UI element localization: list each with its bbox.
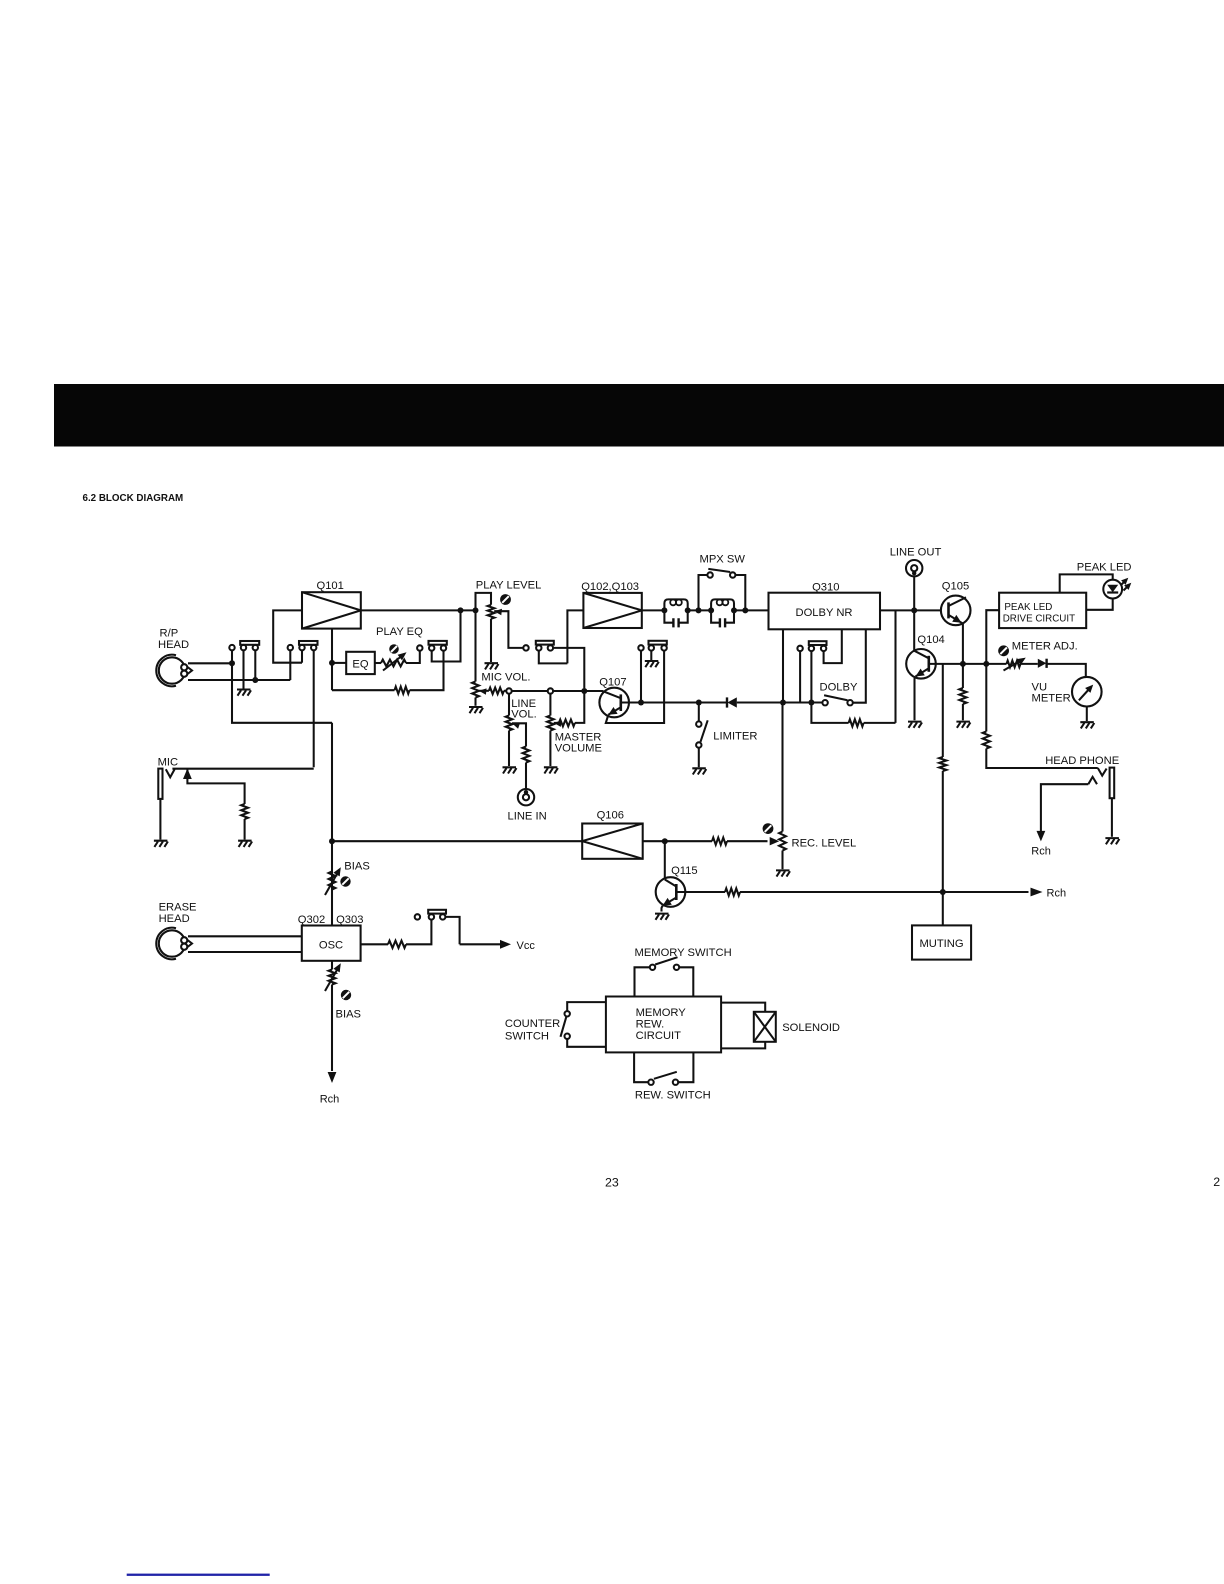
PLAY EQ pot arrow [383, 655, 403, 671]
potentiometer PLAY LEVEL [488, 605, 495, 619]
ground [956, 722, 970, 728]
op-amp Q101 label [317, 580, 344, 592]
node: head lower junction [252, 677, 258, 683]
svg-text:METER: METER [1032, 693, 1071, 705]
svg-text:METER ADJ.: METER ADJ. [1012, 641, 1078, 653]
arrow to Rch [1037, 831, 1046, 842]
svg-text:Q115: Q115 [671, 865, 698, 877]
MUTING box [912, 925, 971, 959]
wire: Q101 output line [361, 609, 476, 611]
node: head upper junction [229, 660, 235, 666]
svg-text:6.2 BLOCK DIAGRAM: 6.2 BLOCK DIAGRAM [83, 493, 184, 504]
ERASE HEAD label [159, 902, 197, 925]
wire: mic line [172, 768, 313, 770]
switch S7 contact b [429, 914, 434, 919]
wire: R/P head lower lead [188, 679, 290, 681]
svg-text:HEAD PHONE: HEAD PHONE [1045, 755, 1119, 767]
wire: bias to Rch arrow [331, 985, 333, 1072]
svg-text:Rch: Rch [1031, 846, 1051, 858]
Rch label (record out) [1047, 888, 1067, 900]
svg-text:MUTING: MUTING [919, 938, 963, 950]
transistor Q104 [906, 649, 936, 679]
resistor rch line [725, 888, 740, 895]
LINE IN jack [518, 789, 534, 805]
node: mixing junction [581, 688, 587, 694]
svg-text:DOLBY: DOLBY [820, 682, 858, 694]
wire: record signal line [641, 701, 727, 703]
wire: to Vcc [460, 943, 500, 945]
transistor Q105 label [942, 581, 969, 593]
DOLBY NR box [769, 593, 881, 630]
ground under MIC VOL [469, 707, 483, 713]
switch S5 contact c [661, 645, 666, 650]
ground under MASTER VOLUME [544, 767, 558, 773]
LINE IN label [508, 811, 547, 823]
svg-text:SWITCH: SWITCH [505, 1031, 549, 1043]
ground under REC LEVEL [776, 870, 790, 876]
switch S4 contact c [548, 645, 553, 650]
variable resistor METER ADJ [1007, 661, 1021, 668]
potentiometer REC LEVEL [781, 703, 783, 832]
MEMORY REW. CIRCUIT box [606, 997, 721, 1053]
ground under PLAY LEVEL [485, 663, 499, 669]
MIC VOL label [481, 672, 530, 684]
svg-text:HEAD: HEAD [159, 913, 190, 925]
wire: led loop top [1060, 574, 1113, 592]
R/P head label [158, 628, 189, 652]
node: Q101 output junction 1 [458, 607, 464, 613]
svg-text:MIC VOL.: MIC VOL. [481, 672, 530, 684]
svg-text:MEMORY SWITCH: MEMORY SWITCH [635, 947, 732, 959]
wire: mic jack sleeve [159, 799, 161, 840]
potentiometer MIC VOL [472, 682, 479, 698]
screwdriver adjust PLAY EQ [389, 644, 399, 654]
svg-text:OSC: OSC [319, 940, 343, 952]
svg-text:2: 2 [1213, 1175, 1220, 1189]
svg-text:REW. SWITCH: REW. SWITCH [635, 1090, 711, 1102]
blue footer line [127, 1574, 270, 1576]
node: EQ branch junction [329, 660, 335, 666]
screwdriver adjust PLAY LEVEL [500, 594, 511, 605]
svg-text:LIMITER: LIMITER [713, 731, 757, 743]
LED light arrows [1121, 580, 1127, 586]
svg-text:VOL.: VOL. [511, 709, 537, 721]
svg-text:MIC: MIC [158, 757, 179, 769]
headphone jack tip contact [1098, 768, 1107, 776]
wire: R/P head upper lead [188, 662, 232, 664]
svg-text:Q101: Q101 [317, 580, 344, 592]
PLAY LEVEL wiper [494, 609, 502, 615]
wire: arch to PLAY LEVEL pot [476, 593, 492, 611]
svg-text:EQ: EQ [352, 658, 368, 670]
switch S7 contact c [440, 914, 445, 919]
erase head [156, 928, 192, 960]
black header bar [54, 384, 1224, 447]
node circle line-vol top [506, 688, 511, 693]
wire: mixing row [512, 690, 548, 692]
ground under mic resistor [238, 841, 252, 847]
REC. LEVEL label [792, 838, 857, 850]
svg-text:COUNTER: COUNTER [505, 1018, 560, 1030]
switch S1 contact c [253, 645, 258, 650]
ground under LINE VOL [503, 767, 517, 773]
wire: long vertical to OSC [331, 723, 333, 926]
switch S6 (dolby in/out sel) contact a [797, 646, 802, 651]
VU METER label [1032, 682, 1071, 705]
svg-text:MEMORY: MEMORY [636, 1007, 687, 1019]
op-amp Q106 label [597, 810, 624, 822]
node [780, 700, 786, 706]
Rch label (headphone) [1031, 846, 1051, 858]
variable resistor BIAS top [329, 872, 336, 890]
svg-text:BIAS: BIAS [344, 861, 370, 873]
svg-text:SOLENOID: SOLENOID [782, 1022, 840, 1034]
switch S2 contact a [288, 645, 293, 650]
switch S4 bar [536, 641, 554, 645]
wire: Q101 bottom port down [331, 629, 333, 691]
R/P head [156, 655, 192, 687]
svg-text:PLAY LEVEL: PLAY LEVEL [476, 580, 542, 592]
diode D1 [726, 697, 728, 707]
switch S3 contact c [441, 645, 446, 650]
LINE OUT jack [906, 560, 922, 576]
op-amp Q102,Q103 label [581, 581, 639, 593]
MPX switch [696, 607, 702, 613]
MASTER VOLUME label [555, 732, 602, 755]
transistor Q115 [664, 841, 666, 879]
PEAK LED DRIVE CIRCUIT box [999, 593, 1086, 628]
rew switch [634, 1052, 648, 1082]
switch S1 contact a [229, 645, 234, 650]
DOLBY label [820, 682, 858, 694]
MIC VOL wiper resistor [479, 688, 487, 694]
arrow Rch output [1031, 888, 1043, 897]
wire: dolby out down branch [894, 610, 896, 723]
ground under S5 [645, 661, 659, 667]
switch S2 contact b [299, 645, 304, 650]
arrow mic input [183, 769, 192, 780]
svg-text:LINE OUT: LINE OUT [890, 547, 942, 559]
switch S7 bar [428, 910, 446, 914]
svg-text:Rch: Rch [320, 1094, 340, 1106]
headphone ring contact [1088, 777, 1097, 784]
node: muting junction [940, 889, 946, 895]
svg-text:Vcc: Vcc [517, 940, 536, 952]
PEAK LED label [1077, 562, 1132, 574]
svg-text:Q106: Q106 [597, 810, 624, 822]
MIC label [158, 757, 179, 769]
svg-text:DOLBY NR: DOLBY NR [796, 607, 853, 619]
resistor rec feed [712, 838, 727, 845]
svg-text:DRIVE CIRCUIT: DRIVE CIRCUIT [1003, 614, 1075, 625]
switch S2 contact c [311, 645, 316, 650]
node: Q107 collector junction [638, 700, 644, 706]
ground under headphone jack [1105, 838, 1119, 844]
LC trap 2 [711, 599, 734, 610]
op-amp Q102,Q103 [583, 593, 641, 628]
svg-text:MPX SW: MPX SW [700, 554, 746, 566]
switch S1 bar [240, 641, 259, 645]
LED peak indicator [1103, 580, 1122, 599]
svg-text:VOLUME: VOLUME [555, 743, 602, 755]
PLAY LEVEL label [476, 580, 542, 592]
Q115 emitter [663, 898, 677, 906]
svg-text:CIRCUIT: CIRCUIT [636, 1030, 682, 1042]
HEAD PHONE label [1045, 755, 1119, 767]
svg-text:Q102,Q103: Q102,Q103 [581, 581, 639, 593]
wire: Q104 base line [929, 663, 1007, 665]
memory switch [635, 967, 650, 996]
wire: EQ input [332, 662, 346, 664]
ground under S1 [237, 690, 251, 696]
node: Q105 emitter junction [960, 661, 966, 667]
switch S3 bar [429, 641, 447, 645]
wire: feedback resistor line [332, 689, 395, 691]
REW. SWITCH label [635, 1090, 711, 1102]
resistor mic load [241, 804, 248, 819]
node: line out junction [911, 607, 917, 613]
MASTER VOLUME wiper resistor [554, 721, 562, 727]
switch S3 (play eq select) contact a [417, 645, 422, 650]
VU meter [1072, 677, 1102, 707]
op-amp Q101 [302, 592, 361, 628]
wire: lower lead up to S2 [289, 650, 291, 680]
switch S5 contact b [649, 645, 654, 650]
svg-text:ERASE: ERASE [159, 902, 197, 914]
variable resistor PLAY EQ pot [375, 662, 381, 664]
switch S4 (rec/play) contact a [523, 645, 528, 650]
switch S1 contact b [241, 645, 246, 650]
switch S2 bar [299, 641, 318, 645]
svg-text:23: 23 [605, 1176, 619, 1190]
node circle master-vol top [548, 688, 553, 693]
headphone jack body [1110, 768, 1115, 799]
wire [688, 609, 711, 611]
wire: down to MIC VOL pot [474, 610, 476, 681]
svg-text:Q303: Q303 [336, 914, 363, 926]
variable resistor BIAS bottom [331, 961, 333, 970]
wire: mic divider [187, 769, 244, 805]
node: erase/bias junction [329, 838, 335, 844]
switch S6 contact c [821, 646, 826, 651]
screwdriver adjust METER ADJ [998, 645, 1009, 656]
COUNTER SWITCH label [505, 1018, 560, 1043]
svg-text:PEAK LED: PEAK LED [1077, 562, 1132, 574]
Q310 label [812, 582, 839, 594]
wire: Q104 top lead [913, 610, 915, 650]
svg-text:Q302: Q302 [298, 914, 325, 926]
wire: led loop bottom [1086, 599, 1113, 610]
svg-text:R/P: R/P [160, 628, 179, 640]
SOLENOID label [782, 1022, 840, 1034]
MEMORY SWITCH label [635, 947, 732, 959]
switch S6 contact b [809, 646, 814, 651]
MIC jack [158, 769, 162, 799]
Q107 emitter [608, 707, 621, 715]
diode D2 [1038, 659, 1047, 668]
counter switch [565, 1011, 570, 1016]
wire: dolby nr left bottom port [782, 629, 784, 702]
node: Q115 branch [662, 838, 668, 844]
ground under VU meter [1080, 722, 1094, 728]
op-amp Q106 [582, 824, 643, 859]
resistor dolby bypass [811, 703, 848, 723]
SOLENOID box [754, 1012, 776, 1042]
LINE VOL wiper [512, 723, 520, 729]
LINE VOL label [511, 698, 537, 721]
transistor Q115 label [671, 865, 698, 877]
OSC box [302, 926, 361, 961]
Rch label (bias) [320, 1094, 340, 1106]
wire: muting feed with resistor [942, 664, 944, 757]
potentiometer LINE VOL [508, 694, 510, 716]
svg-text:Q105: Q105 [942, 581, 969, 593]
potentiometer MASTER VOLUME [549, 694, 551, 716]
node: meter branch junction [983, 661, 989, 667]
REC LEVEL wiper arrow [770, 837, 780, 845]
MPX SW label [700, 554, 746, 566]
wire: to peak led drive [986, 610, 999, 664]
LC trap 1 [664, 599, 687, 610]
wire: Q106 output [643, 840, 712, 842]
wire: to Q102 input [567, 610, 583, 663]
wire: Q115 base / Rch line [676, 891, 725, 893]
svg-text:REC. LEVEL: REC. LEVEL [792, 838, 857, 850]
ground under Q104 [908, 722, 922, 728]
svg-text:Q104: Q104 [917, 634, 944, 646]
svg-text:HEAD: HEAD [158, 639, 189, 651]
wire: dolby output [880, 609, 941, 611]
PLAY EQ label [376, 626, 423, 638]
svg-text:Rch: Rch [1047, 888, 1067, 900]
svg-text:BIAS: BIAS [336, 1009, 362, 1021]
resistor Q105 emitter [962, 664, 964, 688]
screwdriver adjust BIAS top [340, 876, 350, 886]
ground under limiter [692, 768, 706, 774]
switch S7 (vcc) contact a [415, 914, 420, 919]
node: Q101 output junction 2 [473, 607, 479, 613]
wire: to Q106 input [332, 840, 582, 842]
Q302 Q303 labels [298, 914, 364, 926]
svg-text:PLAY EQ: PLAY EQ [376, 626, 423, 638]
solenoid wires [721, 1003, 765, 1012]
switch S4 contact b [536, 645, 541, 650]
transistor Q107 [599, 688, 629, 718]
Q105 emitter [949, 615, 964, 624]
Q104 emitter [916, 668, 929, 676]
svg-text:LINE IN: LINE IN [508, 811, 547, 823]
wire: bias junction to Q106 [232, 663, 332, 723]
transistor Q107 label [599, 677, 626, 689]
LIMITER label [713, 731, 757, 743]
transistor Q104 label [917, 634, 944, 646]
node [808, 700, 814, 706]
resistor osc-vcc [388, 941, 406, 948]
wire: Q102 output line [642, 609, 665, 611]
switch S5 bar [649, 641, 667, 645]
LINE OUT label [890, 547, 942, 559]
wire: osc output [361, 943, 388, 945]
METER ADJ. label [1012, 641, 1078, 653]
Vcc label [517, 940, 536, 952]
BIAS label (bottom) [336, 1009, 362, 1021]
switch S5 contact a [638, 645, 643, 650]
ground under mic jack [154, 841, 168, 847]
svg-text:PEAK LED: PEAK LED [1004, 602, 1052, 613]
DOLBY bypass switch [822, 700, 827, 705]
EQ box [346, 652, 375, 674]
wire: into DOLBY NR [734, 609, 769, 611]
screwdriver adjust BIAS bottom [341, 990, 351, 1000]
BIAS label (top) [344, 861, 370, 873]
transistor Q105 [941, 596, 971, 626]
node: limiter junction [696, 700, 702, 706]
switch S3 contact b [429, 645, 434, 650]
screwdriver adjust REC LEVEL [763, 823, 774, 834]
wire: Q101 input [273, 610, 302, 662]
svg-text:REW.: REW. [636, 1019, 665, 1031]
ground under Q115 [655, 914, 669, 920]
resistor line-in series [523, 747, 530, 763]
LIMITER switch [698, 703, 700, 722]
resistor headphone feed [985, 664, 987, 732]
wire: erase head leads [188, 935, 302, 937]
resistor feedback [395, 687, 410, 694]
svg-text:Q107: Q107 [599, 677, 626, 689]
switch S6 bar [809, 641, 827, 645]
